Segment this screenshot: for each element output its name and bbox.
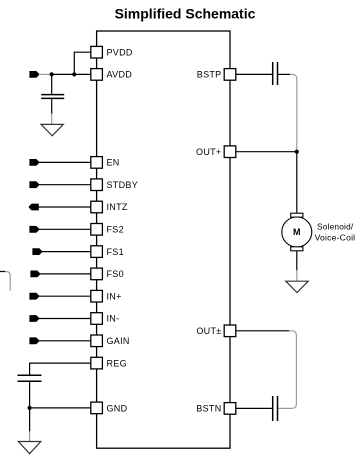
pin FS0 (square)	[91, 268, 103, 280]
svg-text:PVDD: PVDD	[107, 47, 133, 57]
capacitor C4 (bootstrap bottom)	[273, 396, 278, 421]
terminal tag: supply input	[29, 71, 39, 78]
svg-text:STDBY: STDBY	[107, 180, 139, 190]
terminal tag: EN input	[29, 159, 39, 166]
wire: FS2	[38, 228, 91, 230]
svg-text:FS1: FS1	[107, 247, 124, 257]
node C (junction dot at GND net)	[28, 406, 32, 410]
svg-text:OUT±: OUT±	[196, 326, 221, 336]
terminal tag: IN+ input	[29, 293, 39, 300]
wire: STDBY	[38, 184, 91, 186]
svg-text:Voice-Coil: Voice-Coil	[315, 233, 356, 243]
pin IN+ (square)	[91, 290, 103, 302]
wire: capacitor C1 to ground	[51, 98, 53, 113]
capacitor C3 (bootstrap top)	[273, 62, 278, 85]
svg-text:EN: EN	[107, 158, 120, 168]
svg-text:BSTN: BSTN	[196, 404, 221, 414]
svg-text:M: M	[293, 227, 301, 237]
wire: INTZ	[36, 206, 91, 208]
node B (junction dot, PVDD branch)	[72, 72, 76, 76]
pin INTZ (square)	[91, 201, 103, 213]
wire: IN+	[38, 295, 91, 297]
terminal tag: FS1 input	[32, 248, 42, 255]
wire: AVDD input wire from terminal tag to AVDD pin	[39, 73, 52, 75]
motor M1 (solenoid / voice-coil)	[282, 217, 312, 247]
wire: node C down to ground	[29, 408, 31, 432]
pin FS2 (square)	[91, 224, 103, 236]
svg-text:OUT+: OUT+	[196, 147, 221, 157]
svg-text:FS0: FS0	[107, 269, 124, 279]
svg-text:Solenoid/: Solenoid/	[317, 222, 354, 232]
svg-text:BSTP: BSTP	[197, 70, 222, 80]
IC U1 body outline	[97, 31, 230, 448]
capacitor C1 (supply bypass)	[41, 95, 64, 99]
wire: node C right to GND pin	[30, 407, 91, 409]
wire: OUT± pin right then down to BSTN cap (gray)	[236, 330, 289, 332]
terminal tag: IN- input	[29, 315, 39, 322]
pin STDBY (square)	[91, 179, 103, 191]
svg-text:Simplified Schematic: Simplified Schematic	[115, 5, 256, 21]
svg-text:GND: GND	[107, 403, 128, 413]
wire: REG pin left and down to capacitor C2	[30, 363, 91, 375]
pin OUT+ (square)	[224, 146, 236, 158]
pin REG (square)	[91, 357, 103, 369]
svg-text:FS2: FS2	[107, 225, 124, 235]
pin AVDD (square)	[91, 69, 103, 81]
wire: motor M1 to ground	[296, 251, 298, 270]
svg-text:IN+: IN+	[107, 291, 122, 301]
wire: IN-	[38, 318, 91, 320]
terminal tag: FS0 input	[30, 271, 40, 278]
svg-text:AVDD: AVDD	[107, 70, 133, 80]
motor M1 terminal top	[291, 213, 303, 217]
wire: EN	[38, 161, 91, 163]
svg-text:GAIN: GAIN	[107, 336, 130, 346]
pin BSTP (square)	[224, 69, 236, 81]
wire: FS0	[40, 273, 91, 275]
terminal tag: GAIN input	[29, 337, 39, 344]
wire: node D down to motor M1	[296, 152, 298, 214]
pin GAIN (square)	[91, 335, 103, 347]
svg-text:REG: REG	[107, 358, 127, 368]
pin BSTN (square)	[224, 403, 236, 415]
ground symbol G3	[286, 281, 308, 292]
pin EN (square)	[91, 157, 103, 169]
terminal tag: INTZ output (points left)	[29, 204, 39, 211]
pin IN- (square)	[91, 313, 103, 325]
pin PVDD (square)	[91, 46, 103, 58]
svg-text:INTZ: INTZ	[107, 202, 128, 212]
node A (junction dot, cap branch)	[50, 72, 54, 76]
pin FS1 (square)	[91, 246, 103, 258]
wire: GAIN	[38, 340, 91, 342]
wire: BSTN pin right to capacitor C4	[236, 407, 272, 409]
pin OUT± (square)	[224, 325, 236, 337]
capacitor C2 (REG bypass)	[18, 375, 42, 381]
svg-text:IN-: IN-	[107, 314, 120, 324]
wire: PVDD branch from node B up and right to PVDD pin	[74, 52, 91, 74]
terminal tag: STDBY input	[29, 181, 39, 188]
pin GND (square)	[91, 402, 103, 414]
wire: BSTP pin right to capacitor C3	[236, 73, 272, 75]
wire: capacitor C3 right then down to node D (gray)	[278, 73, 290, 75]
ground symbol G2	[18, 442, 40, 454]
terminal tag: FS2 input	[29, 226, 39, 233]
ground symbol G1	[41, 124, 63, 135]
partial bracket artifact at left edge	[0, 271, 5, 273]
wire: capacitor C2 down to node C	[29, 381, 31, 408]
wire: FS1	[41, 251, 91, 253]
wire: node A down to capacitor C1	[51, 74, 53, 94]
motor M1 terminal bottom	[291, 247, 303, 251]
node D (junction dot on OUT+ net)	[295, 150, 299, 154]
wire: OUT+ pin to node D	[236, 151, 297, 153]
